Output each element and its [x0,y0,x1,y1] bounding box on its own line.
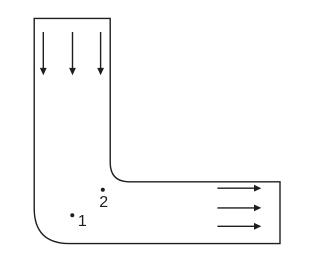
inlet arrow 2 (down) [69,32,76,75]
L-shaped duct outline [34,18,280,243]
inlet arrow 1 (down) [40,32,47,75]
node 2 dot [101,188,105,192]
svg-text:1: 1 [78,213,87,230]
outlet arrow 2 (right) [217,205,261,212]
inlet arrow 3 (down) [97,32,104,75]
outlet arrow 3 (right) [217,223,261,230]
node 1 dot [70,213,74,217]
outlet arrow 1 (right) [217,185,261,192]
svg-text:2: 2 [99,194,108,211]
